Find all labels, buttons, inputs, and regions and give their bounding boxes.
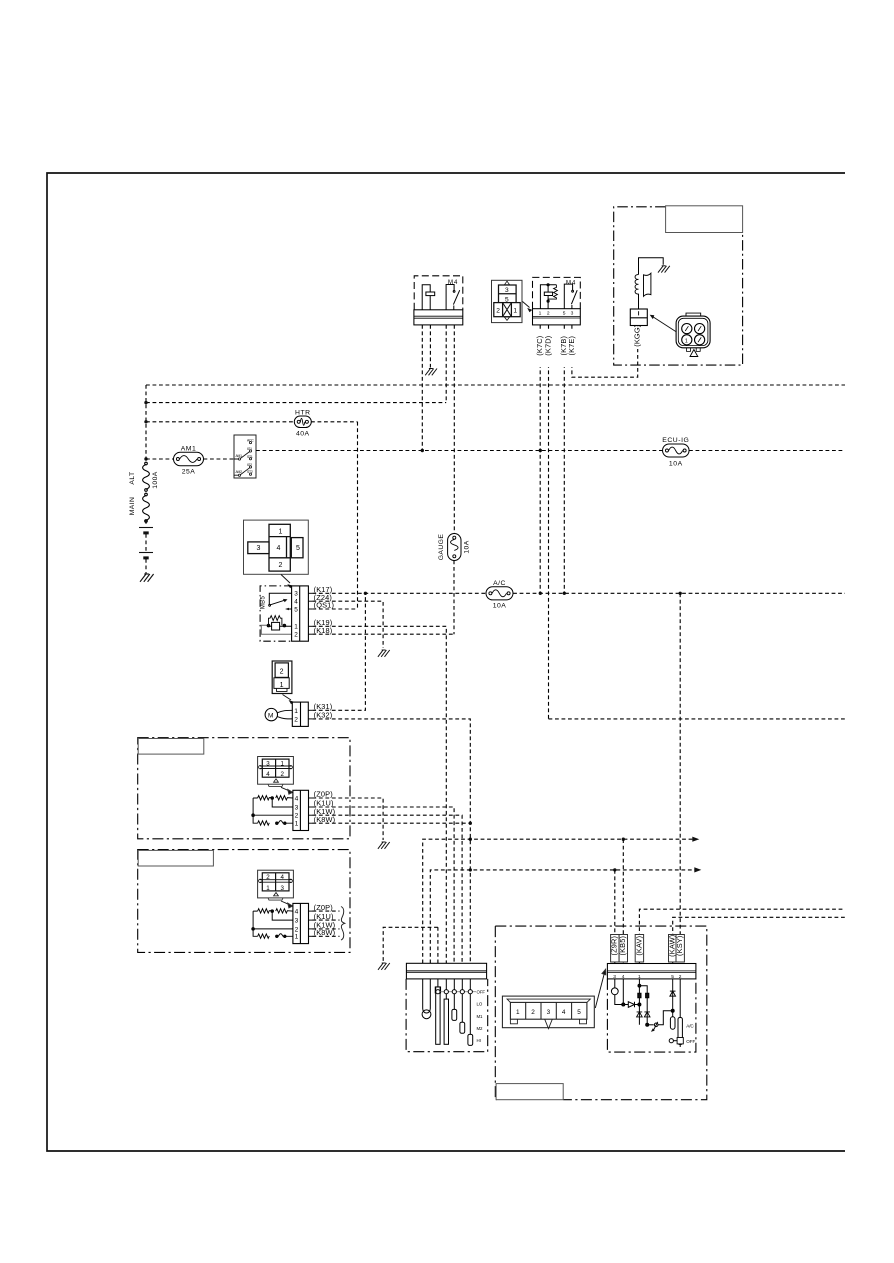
svg-text:M: M <box>268 712 273 719</box>
blower switch enclosure <box>406 979 488 1052</box>
svg-text:OFF: OFF <box>686 1039 695 1044</box>
node IG1 to A/C relay leg <box>539 449 542 452</box>
wire label (K7E) <box>568 330 576 367</box>
svg-text:2: 2 <box>294 716 298 723</box>
blower resistor 1 elements <box>252 796 293 826</box>
wire label (K1U) <box>309 806 313 808</box>
wire label (KGG) <box>634 328 642 350</box>
wire blower switch pin2 to A/C amplifier <box>430 870 695 963</box>
svg-text:(K8W): (K8W) <box>314 815 336 824</box>
noise filter capacitor and coil <box>635 258 663 309</box>
wire heater relay coil+ to IG1 <box>421 325 423 451</box>
wire HTR fuse feed <box>146 421 295 423</box>
A/C control panel enclosure <box>607 979 696 1052</box>
wire blower switch pin1 to A/C amplifier <box>423 839 694 963</box>
svg-text:M1: M1 <box>477 1014 484 1019</box>
wire battery positive vertical x=146 <box>145 385 147 462</box>
svg-text:4: 4 <box>295 909 299 916</box>
svg-text:1: 1 <box>266 885 270 892</box>
svg-text:40A: 40A <box>296 430 310 437</box>
wire resistor2 stub <box>312 935 339 937</box>
svg-text:(QS1): (QS1) <box>314 601 334 610</box>
svg-text:2: 2 <box>295 926 299 933</box>
svg-text:5: 5 <box>294 606 298 613</box>
svg-text:3: 3 <box>281 885 285 892</box>
svg-text:ALT: ALT <box>129 471 136 484</box>
svg-text:2: 2 <box>279 562 283 569</box>
brace grouping resistor2 wires <box>341 907 345 941</box>
wire resistor2 stub <box>312 928 339 930</box>
A/C control panel pin strip <box>607 964 696 979</box>
relay M4 (A/C relay) enclosure <box>533 277 581 308</box>
svg-text:4: 4 <box>294 599 298 606</box>
blower resistor assembly 1 enclosure <box>138 738 350 839</box>
node K17/K31 branch <box>364 592 367 595</box>
wire K18 MB5 to GAUGE output <box>312 633 454 635</box>
svg-text:1: 1 <box>685 338 688 344</box>
svg-text:25A: 25A <box>182 469 196 476</box>
svg-text:1: 1 <box>294 624 298 631</box>
wire blower switch pin3 to ground <box>383 927 438 961</box>
round 4-pin connector (igniter) <box>676 313 710 356</box>
ground (heater relay coil) <box>425 369 437 376</box>
wire label (K32) <box>308 718 312 720</box>
svg-text:4: 4 <box>562 1009 566 1016</box>
svg-text:1: 1 <box>294 708 298 715</box>
node K32/arrow line 1 <box>469 838 472 841</box>
svg-text:(K32): (K32) <box>314 711 333 720</box>
relay M4 (heater relay) enclosure <box>414 276 463 310</box>
wire Z24 to ground <box>312 601 383 648</box>
noise filter assembly enclosure <box>614 207 743 365</box>
relay MB5 pin strip <box>292 586 309 641</box>
wire K17 (A/C line) MB5 to A/C fuse <box>312 592 486 594</box>
wire resistor2 stub <box>312 910 339 912</box>
svg-text:MB5: MB5 <box>260 596 266 610</box>
svg-text:ST2: ST2 <box>247 470 253 474</box>
ignition switch <box>234 435 256 478</box>
svg-text:2: 2 <box>294 632 298 639</box>
arrow resistor 1 icon to pin strip <box>281 787 290 791</box>
wire label (K7D) <box>544 330 552 367</box>
wire K19 MB5 to blower switch pin 4 <box>312 626 446 963</box>
relay M4 heater pin strip <box>414 310 463 325</box>
svg-text:100A: 100A <box>152 471 159 489</box>
blower resistor 2 pin strip <box>293 903 309 943</box>
wire label (K17) <box>308 592 312 594</box>
wire K1W resistor1 to blower switch pin 6 <box>312 815 462 963</box>
fusible link ALT 100A <box>143 462 150 491</box>
wire ECU-IG fuse to right edge <box>689 450 845 452</box>
svg-text:GAUGE: GAUGE <box>438 534 445 561</box>
label box (A/C control assembly name) <box>496 1084 563 1100</box>
svg-text:2: 2 <box>266 874 270 881</box>
wire AM1 fuse to ignition switch <box>204 458 235 460</box>
svg-text:IG2: IG2 <box>247 463 252 467</box>
svg-text:ST1: ST1 <box>247 455 253 459</box>
svg-text:3: 3 <box>571 311 574 317</box>
wire heater relay output to GAUGE fuse <box>453 325 455 534</box>
relay M4 A/C pin strip <box>533 309 581 325</box>
fuse A/C 10A <box>486 580 513 610</box>
connector icon (ignition switch connector, pins 1-5) <box>244 520 309 574</box>
svg-text:ACC: ACC <box>247 439 254 443</box>
page border frame <box>47 173 845 1151</box>
wire K8W resistor1 to K32 node <box>312 822 470 824</box>
relay MB5 enclosure <box>260 586 292 641</box>
label box (assembly 2 name) <box>138 850 213 866</box>
svg-text:5: 5 <box>577 1009 581 1016</box>
svg-text:(KAV): (KAV) <box>634 936 643 956</box>
svg-text:M4: M4 <box>566 281 576 287</box>
svg-text:3: 3 <box>505 287 509 294</box>
blower switch pin strip <box>406 963 486 979</box>
svg-text:1: 1 <box>513 308 517 315</box>
wire Z0P resistor1 to ground <box>312 798 383 840</box>
wire label (K31) <box>308 709 312 711</box>
node IG1 to heater relay coil <box>421 449 424 452</box>
svg-text:HI: HI <box>477 1038 481 1043</box>
svg-text:(K1U): (K1U) <box>314 912 334 921</box>
connector KGG pin box <box>630 309 647 326</box>
wire K7E relay to igniter KGG <box>572 325 638 377</box>
wire label (KSY) <box>676 935 684 963</box>
ground (battery) <box>140 574 154 582</box>
relay MB5 coil <box>261 616 291 635</box>
wire KSY A/C panel pin2 to A/C line <box>679 593 681 963</box>
fuse GAUGE 10A (vertical) <box>438 534 471 561</box>
svg-text:IG1: IG1 <box>247 447 252 451</box>
relay M4 heater coil <box>422 285 434 310</box>
node Z9R branch <box>613 868 616 871</box>
blower resistor 1 pin strip <box>293 790 309 830</box>
wire label (Z0P) <box>309 797 313 799</box>
wire label (K1W) <box>309 814 313 816</box>
svg-text:4: 4 <box>266 771 270 778</box>
svg-text:5: 5 <box>505 296 509 303</box>
svg-text:5: 5 <box>296 545 300 552</box>
wire battery to AM1 fuse <box>146 458 174 460</box>
svg-text:(K7E): (K7E) <box>567 336 576 356</box>
fusible link MAIN <box>143 493 150 522</box>
svg-text:MAIN: MAIN <box>129 497 136 516</box>
node A/C line to KSY <box>679 592 682 595</box>
wire label (K18) <box>308 633 312 635</box>
ground (Z24) <box>378 650 390 657</box>
node K32/arrow line 2 <box>469 868 472 871</box>
fuse ECU-IG 10A <box>662 437 689 468</box>
connector icon (resistor 1 connector) <box>138 757 707 1100</box>
wire label (QS1) <box>308 608 312 610</box>
svg-text:3: 3 <box>257 545 261 552</box>
arrow 5-pin connector icon to A/C panel strip <box>595 974 604 1009</box>
wire K7B relay to A/C line <box>563 325 565 593</box>
wire label (Z0P) <box>309 910 313 912</box>
svg-text:1: 1 <box>279 529 283 536</box>
wire HTR fuse to QS1 <box>311 421 358 423</box>
svg-text:3: 3 <box>295 804 299 811</box>
svg-text:10A: 10A <box>669 461 683 468</box>
node A/C line to K7C <box>539 592 542 595</box>
svg-text:LO: LO <box>477 1002 483 1007</box>
svg-text:(Z0P): (Z0P) <box>314 903 333 912</box>
svg-text:2: 2 <box>280 668 284 675</box>
wire K7C relay to IG1/AC lines <box>539 325 541 593</box>
wire GAUGE fuse output down to K18 <box>453 561 455 635</box>
svg-text:1: 1 <box>281 761 285 768</box>
svg-text:A/C: A/C <box>686 1023 694 1028</box>
wire battery to ground <box>145 559 147 574</box>
svg-text:3: 3 <box>294 591 298 598</box>
svg-text:HTR: HTR <box>295 410 310 417</box>
svg-text:2: 2 <box>295 813 299 820</box>
wire KAW A/C panel pin5 to right edge <box>673 917 845 963</box>
fuse AM1 25A <box>174 445 204 475</box>
node KB5 branch <box>622 838 625 841</box>
wire label (K8W) <box>309 822 313 824</box>
ground (Z0P) <box>378 842 390 849</box>
blower switch internals <box>422 979 476 1046</box>
wire label (KB5) <box>619 935 627 963</box>
svg-text:3: 3 <box>547 1009 551 1016</box>
svg-text:1: 1 <box>516 1009 520 1016</box>
node at HTR branch <box>144 420 147 423</box>
wire AM2 feed to heater relay contact <box>146 402 446 404</box>
wire heater relay coil- to ground <box>429 325 431 368</box>
wire KB5 to A/C panel pin 4 <box>622 839 624 963</box>
blower resistor assembly 2 enclosure <box>138 850 350 953</box>
svg-text:5: 5 <box>563 311 566 317</box>
svg-text:1: 1 <box>295 934 299 941</box>
svg-text:(KSY): (KSY) <box>675 935 684 955</box>
wire label (K19) <box>308 625 312 627</box>
node A/C line to K7B <box>563 592 566 595</box>
label box (noise filter name) <box>666 206 743 233</box>
relay M4 A/C coil with resistor <box>540 284 557 309</box>
svg-text:AM1: AM1 <box>181 445 196 452</box>
node at AM2 branch <box>144 401 147 404</box>
wire QS1 MB5 to HTR feed <box>312 608 357 610</box>
ground (noise filter) <box>658 266 670 273</box>
wire Z9R to A/C panel pin 3 <box>614 870 616 964</box>
relay M4 A/C switch <box>564 284 577 309</box>
wire label (Z24) <box>308 600 312 602</box>
node K32/K8W <box>469 822 472 825</box>
wire label (KAW) <box>669 935 677 963</box>
wire battery feed B+ (to EFI page) <box>146 384 845 386</box>
wire heater relay contact to AM2 line <box>445 325 447 403</box>
wire K17 A/C fuse to right edge <box>513 592 845 594</box>
arrowhead line 1 <box>692 837 699 842</box>
connector icon (resistor 2 connector) <box>252 870 707 1099</box>
wire K31 motor to A/C line <box>312 593 365 710</box>
node at AM1 branch <box>144 457 147 460</box>
arrow motor connector icon to pin strip <box>283 695 292 701</box>
wire resistor2 stub <box>312 919 339 921</box>
svg-text:3: 3 <box>295 918 299 925</box>
wire blower switch pin3 riser <box>437 927 439 963</box>
A/C control panel internals <box>611 979 683 1047</box>
svg-text:4: 4 <box>281 874 285 881</box>
connector icon (A/C relay connector 3/5/2/X/1) <box>492 280 523 322</box>
arrow connector icon to relay M4 A/C <box>523 302 530 308</box>
wire link to battery <box>145 520 147 526</box>
svg-text:4: 4 <box>277 545 281 552</box>
relay MB5 contact internals <box>269 593 292 610</box>
label box (assembly 1 name) <box>138 739 204 755</box>
svg-text:1: 1 <box>295 821 299 828</box>
svg-text:10A: 10A <box>493 603 507 610</box>
wire label (K1W) <box>309 928 313 930</box>
wire K32 motor to blower switch pin 7 <box>312 719 470 963</box>
connector icon (blower motor connector 2/1) <box>272 661 292 694</box>
svg-text:2: 2 <box>531 1009 535 1016</box>
svg-text:(K18): (K18) <box>314 626 333 635</box>
wire label (K8W) <box>309 935 313 937</box>
arrowhead line 2 <box>694 867 701 872</box>
arrow round connector to KGG box <box>653 317 677 333</box>
svg-text:A/C: A/C <box>493 580 506 587</box>
wire K1U resistor1 to blower switch pin 5 <box>312 807 454 963</box>
wire HTR output down to MB5 pin 5 (QS1) <box>357 422 359 609</box>
blower motor M <box>265 708 277 720</box>
wire label (K7C) <box>536 330 544 367</box>
arrow connector icon to relay MB5 <box>281 575 290 584</box>
svg-text:2: 2 <box>496 308 500 315</box>
svg-text:OFF: OFF <box>477 990 486 995</box>
battery <box>139 528 153 558</box>
connector icon (A/C panel 5-pin connector) <box>502 996 594 1029</box>
svg-text:ECU-IG: ECU-IG <box>662 437 689 444</box>
wire label (KAV) <box>635 935 643 963</box>
blower resistor 2 elements <box>252 909 293 939</box>
wire IG1 from ignition switch <box>256 450 663 452</box>
ground (blower switch) <box>378 963 390 970</box>
svg-text:(Z0P): (Z0P) <box>314 790 333 799</box>
wire KAV A/C panel pin1 to right edge <box>639 909 845 963</box>
svg-text:2: 2 <box>547 311 550 317</box>
A/C control assembly enclosure <box>495 926 707 1100</box>
svg-text:(K7D): (K7D) <box>543 336 552 356</box>
blower motor pin strip <box>292 702 308 726</box>
wire label (Z9R) <box>611 935 619 963</box>
arrow resistor 2 icon to pin strip <box>281 901 290 905</box>
svg-text:(KB5): (KB5) <box>618 936 627 956</box>
fuse HTR 40A <box>294 410 311 438</box>
wire K7D relay down and right to page edge <box>549 325 846 719</box>
svg-text:1: 1 <box>280 682 284 689</box>
svg-text:M4: M4 <box>448 280 458 286</box>
wire label (K7B) <box>560 330 568 367</box>
svg-text:4: 4 <box>295 795 299 802</box>
svg-text:3: 3 <box>266 761 270 768</box>
svg-text:M2: M2 <box>477 1026 484 1031</box>
relay M4 heater switch <box>446 285 460 310</box>
svg-text:2: 2 <box>281 771 285 778</box>
svg-text:10A: 10A <box>464 540 471 553</box>
svg-text:(KGG): (KGG) <box>633 325 642 347</box>
wire label (K1U) <box>309 919 313 921</box>
svg-text:1: 1 <box>539 311 542 317</box>
